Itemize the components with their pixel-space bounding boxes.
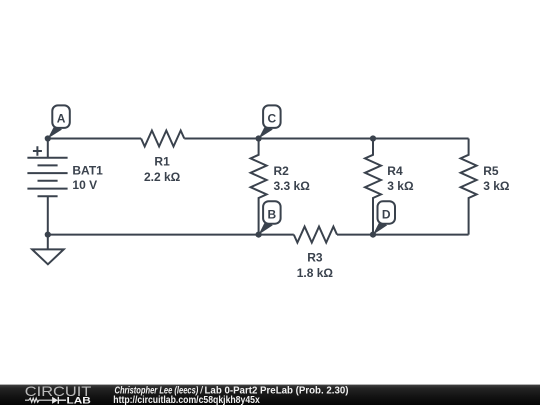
node D flag tail (373, 221, 387, 234)
resistor R2 body with leads (251, 139, 267, 235)
wire top-left (node A to R1) (48, 138, 141, 140)
battery BAT1 bottom stem (47, 196, 49, 234)
svg-text:R3: R3 (307, 251, 323, 265)
resistor R4 body with leads (365, 139, 381, 235)
battery plus sign (33, 146, 42, 156)
svg-text:C: C (268, 112, 277, 126)
svg-text:B: B (268, 207, 277, 221)
svg-text:3 kΩ: 3 kΩ (483, 179, 510, 193)
node D flag box (378, 201, 396, 224)
resistor R5 body with leads (461, 139, 477, 235)
ground stem (47, 235, 49, 250)
node A junction dot (45, 135, 51, 141)
node B junction dot (256, 232, 262, 238)
svg-text:3.3 kΩ: 3.3 kΩ (274, 179, 311, 193)
node C flag box (263, 105, 281, 128)
logo resistor zigzag (25, 398, 52, 402)
node C junction dot (256, 135, 262, 141)
svg-text:D: D (382, 207, 391, 221)
svg-text:LAB: LAB (67, 395, 92, 405)
ground junction dot (45, 232, 51, 238)
ground symbol triangle (32, 249, 64, 264)
svg-text:R4: R4 (387, 164, 403, 178)
logo diode symbol (52, 397, 58, 404)
battery BAT1 plates (27, 158, 67, 197)
node B flag tail (259, 221, 273, 234)
svg-text:10 V: 10 V (72, 178, 97, 192)
svg-text:R2: R2 (274, 164, 290, 178)
wire bottom-right (R3 to bottom-right corner) (337, 234, 469, 236)
svg-text:R1: R1 (154, 155, 170, 169)
wire bottom-left (ground node to R3) (48, 234, 294, 236)
node B flag box (263, 201, 281, 224)
svg-text:http://circuitlab.com/c58qkjkh: http://circuitlab.com/c58qkjkh8y45x (113, 395, 260, 405)
svg-text:3 kΩ: 3 kΩ (387, 179, 414, 193)
node C flag tail (259, 126, 273, 139)
battery BAT1 top stem (47, 139, 49, 158)
node A flag tail (48, 126, 62, 139)
node D junction dot (370, 232, 376, 238)
svg-text:2.2 kΩ: 2.2 kΩ (144, 170, 181, 184)
resistor R1 body (141, 131, 184, 147)
svg-text:1.8 kΩ: 1.8 kΩ (297, 266, 334, 280)
resistor R3 body (294, 227, 337, 243)
svg-text:R5: R5 (483, 164, 499, 178)
junction dot R4 top (370, 135, 376, 141)
svg-text:A: A (57, 112, 66, 126)
svg-text:BAT1: BAT1 (72, 164, 103, 178)
node A flag box (52, 105, 70, 128)
wire top (R1 to top-right corner) (184, 138, 468, 140)
